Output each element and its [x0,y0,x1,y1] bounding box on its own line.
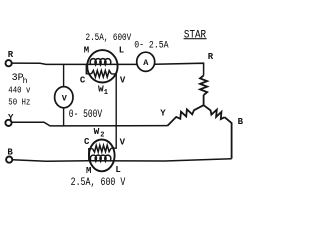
wattmeter W2 [89,140,115,172]
terminal R [6,60,12,66]
svg-text:2.5A, 600V: 2.5A, 600V [86,32,132,43]
svg-text:R: R [208,52,214,62]
svg-text:A: A [143,58,149,68]
svg-text:2.5A, 600 V: 2.5A, 600 V [71,176,126,188]
svg-text:V: V [62,93,68,103]
terminal B [6,157,12,163]
ammeter A [137,52,155,71]
wire R line (ammeter to load corner) [155,63,204,75]
label 3Ph 440v 50Hz (supply value) [8,73,30,108]
svg-text:R: R [8,50,14,60]
svg-text:L: L [115,165,120,175]
voltmeter V [55,87,73,108]
label STAR (title) [184,30,207,42]
resistor B load [204,105,225,119]
svg-text:C: C [84,137,90,147]
svg-text:0- 2.5A: 0- 2.5A [134,38,169,50]
svg-text:L: L [119,46,124,56]
svg-text:M: M [84,46,89,56]
svg-text:Y: Y [160,109,166,119]
wire W1 C lead [86,64,91,73]
svg-text:V: V [120,75,126,85]
svg-text:50 Hz: 50 Hz [8,97,30,108]
wire R load to star point [203,95,205,105]
wattmeter W1 [87,50,117,82]
resistor Y load [168,105,204,125]
wire B load down right side [225,117,232,158]
W1 current coil [90,59,111,65]
resistor R load [200,76,207,96]
wire W2 C lead [89,149,93,161]
svg-text:0- 500V: 0- 500V [69,108,103,121]
W2 pressure coil resistor [93,145,111,152]
wire Y line [12,122,168,126]
svg-text:C: C [80,75,86,85]
wire B line [12,159,231,162]
wire voltmeter bottom lead [63,108,65,126]
wire W1 V to W2 V (pressure coil common) [111,74,116,148]
wire R line (terminal to ammeter) [12,63,137,64]
W1 pressure coil resistor [91,71,111,78]
svg-text:1: 1 [104,89,108,97]
svg-text:M: M [86,166,91,176]
W2 current coil [90,155,110,161]
W1 designator [98,84,108,98]
svg-text:V: V [120,137,126,147]
wire voltmeter top lead [63,64,65,86]
svg-text:440 v: 440 v [8,84,30,95]
terminal Y [5,120,11,126]
svg-text:2: 2 [100,131,104,139]
svg-text:STAR: STAR [184,30,206,42]
W2 designator [94,126,105,139]
svg-text:B: B [238,117,244,127]
svg-text:W: W [94,126,100,137]
